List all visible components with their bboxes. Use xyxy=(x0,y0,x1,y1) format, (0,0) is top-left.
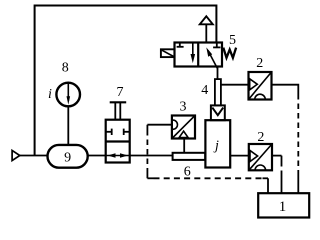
valve 5 body xyxy=(175,43,223,67)
wire top supply line xyxy=(35,6,217,156)
label j xyxy=(213,139,219,154)
converter 2 upper xyxy=(249,72,272,100)
converter 2 lower xyxy=(249,144,272,170)
beam 6 xyxy=(173,153,206,160)
wire cylinder j to converter 2 lower xyxy=(230,155,249,157)
svg-text:3: 3 xyxy=(180,100,187,115)
label 2 lower xyxy=(257,130,264,145)
dashed signal line bottom xyxy=(147,177,268,179)
wire converter 2 lower output xyxy=(272,155,282,157)
valve 7 body xyxy=(106,120,130,163)
dashed signal converter 2 lower to controller 1 xyxy=(281,156,283,194)
label 7 xyxy=(117,85,124,100)
tank 9 xyxy=(48,145,88,168)
label 5 xyxy=(229,33,236,48)
svg-text:8: 8 xyxy=(62,61,69,76)
label 8 xyxy=(62,61,69,76)
wire converter 3 to beam 6 xyxy=(183,139,185,153)
dashed signal converter 2 upper to controller 1 xyxy=(297,94,299,193)
exhaust triangle of valve 5 xyxy=(200,16,213,24)
label 4 xyxy=(201,83,208,98)
wire source to tank 9 xyxy=(20,155,49,157)
svg-text:2: 2 xyxy=(256,56,263,71)
wire exhaust to valve 5 xyxy=(205,24,207,42)
wire valve 7 to beam 6 xyxy=(130,155,173,157)
svg-text:j: j xyxy=(213,139,219,154)
valve 5 lever actuator xyxy=(161,49,175,57)
wire tank 9 to valve 7 xyxy=(88,155,106,157)
pressure source triangle xyxy=(12,150,20,160)
valve 7 plunger actuator xyxy=(110,102,127,119)
instrument 8 xyxy=(56,83,80,107)
wire signal into controller 1 left xyxy=(267,178,269,193)
valve 5 left cell flow arrow xyxy=(191,43,196,64)
svg-text:9: 9 xyxy=(64,150,71,165)
svg-text:1: 1 xyxy=(279,199,287,215)
svg-text:6: 6 xyxy=(184,164,191,179)
controller 1 xyxy=(258,193,309,217)
wire valve 5 to nozzle 4 xyxy=(217,67,219,80)
wire nozzle 4 to converter 2 upper xyxy=(221,84,249,86)
converter 3 xyxy=(172,116,195,139)
valve 7 open position flow path xyxy=(106,153,130,157)
nozzle 4 head xyxy=(211,105,225,120)
label 6 xyxy=(184,164,191,179)
wire instrument 8 to tank 9 xyxy=(67,107,69,147)
label i xyxy=(48,87,52,102)
svg-text:i: i xyxy=(48,87,52,102)
svg-text:5: 5 xyxy=(229,33,236,48)
valve 5 return spring xyxy=(223,48,236,58)
valve 5 right cell flow arrow xyxy=(206,47,217,68)
svg-text:2: 2 xyxy=(257,130,264,145)
valve 5 right cell blocked port xyxy=(213,43,220,48)
nozzle 4 xyxy=(215,79,221,105)
svg-text:4: 4 xyxy=(201,83,208,98)
wire converter 2 upper output xyxy=(272,85,299,94)
valve 5 left cell blocked port xyxy=(177,43,184,47)
valve 7 closed position blocked ports xyxy=(106,129,130,135)
svg-text:7: 7 xyxy=(117,85,124,100)
cylinder j xyxy=(205,120,230,167)
label 3 xyxy=(180,100,187,115)
wire signal into converter 3 xyxy=(147,124,172,126)
dashed signal line left xyxy=(146,125,148,179)
label 2 upper xyxy=(256,56,263,71)
